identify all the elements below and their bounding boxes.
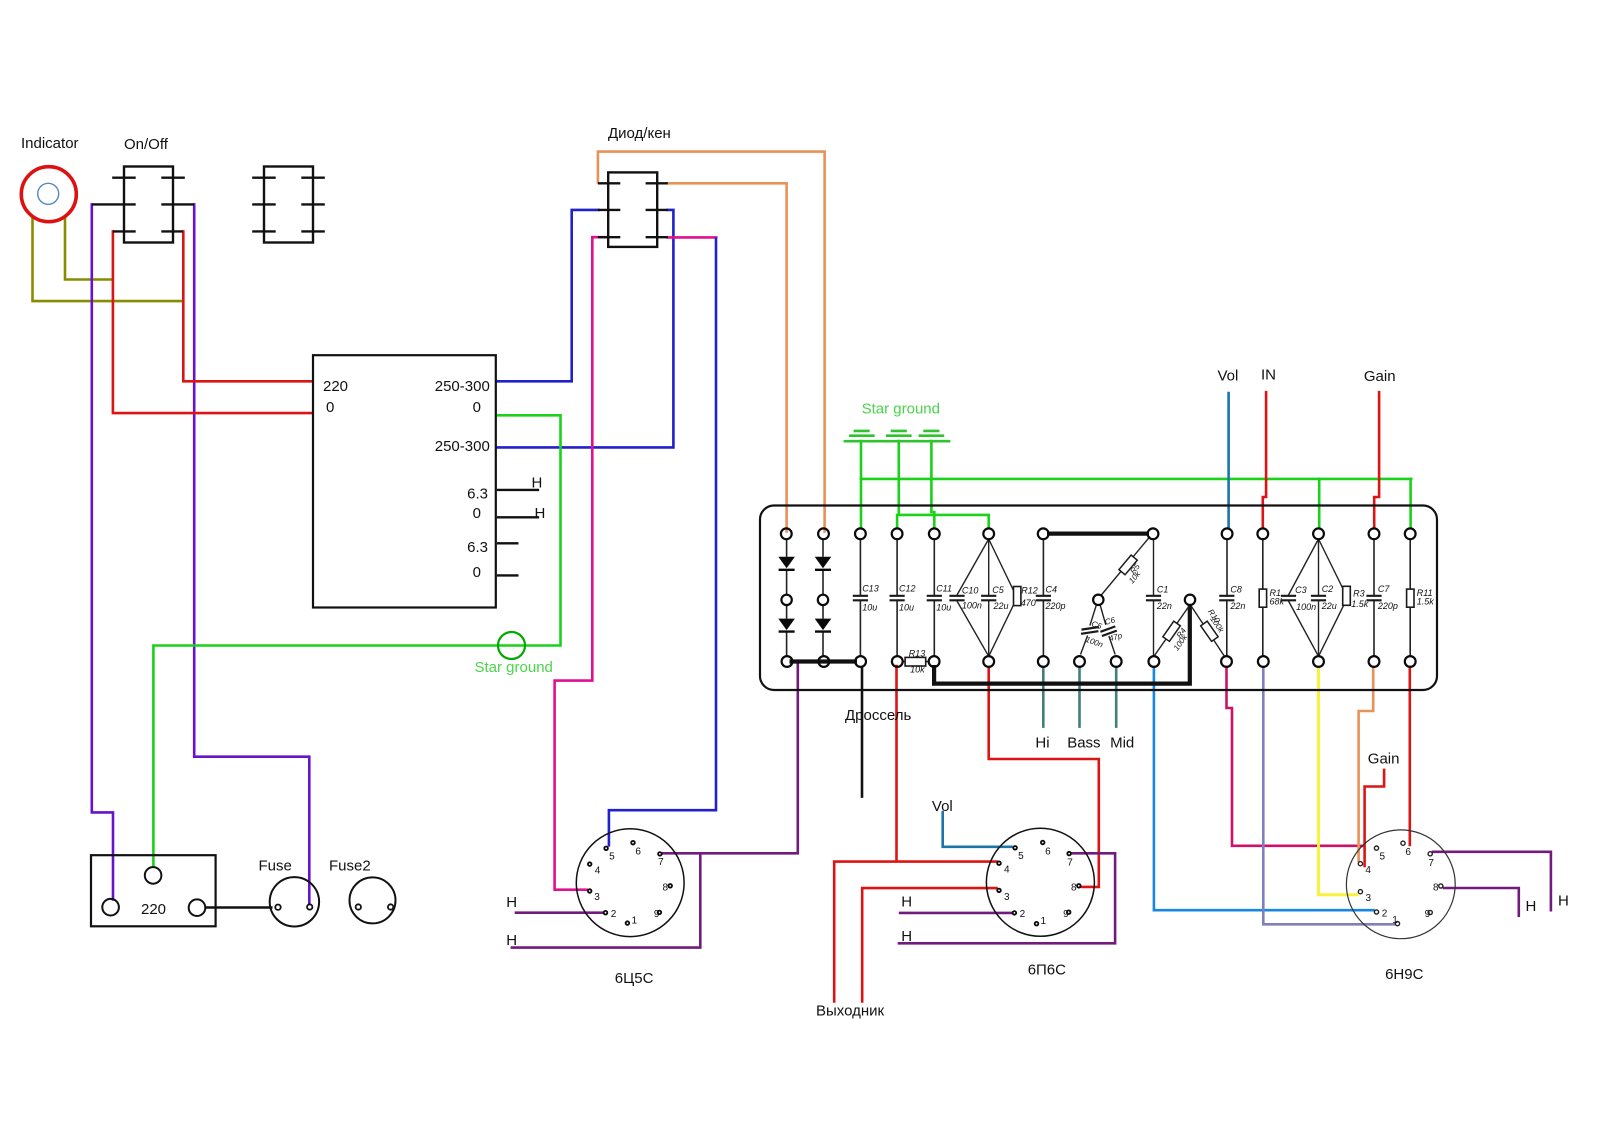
svg-text:100n: 100n <box>962 601 982 611</box>
svg-text:5: 5 <box>1018 851 1024 862</box>
svg-text:10u: 10u <box>936 603 951 613</box>
svg-text:H: H <box>535 505 546 522</box>
svg-text:6: 6 <box>635 847 641 858</box>
svg-text:9: 9 <box>1063 909 1069 920</box>
svg-text:0: 0 <box>473 399 481 416</box>
svg-text:220p: 220p <box>1045 601 1066 611</box>
svg-text:C8: C8 <box>1230 585 1242 595</box>
svg-text:6.3: 6.3 <box>467 486 488 503</box>
svg-text:220: 220 <box>323 378 348 395</box>
svg-text:Vol: Vol <box>1218 367 1239 384</box>
svg-text:R13: R13 <box>909 648 926 658</box>
svg-text:68k: 68k <box>1270 596 1285 606</box>
svg-text:22n: 22n <box>1229 601 1245 611</box>
svg-text:250-300: 250-300 <box>435 378 490 395</box>
svg-text:H: H <box>506 932 517 949</box>
svg-text:7: 7 <box>658 857 664 868</box>
svg-text:Indicator: Indicator <box>21 135 79 152</box>
svg-text:Выходник: Выходник <box>816 1003 885 1020</box>
svg-text:1: 1 <box>1041 916 1047 927</box>
svg-text:10u: 10u <box>899 603 914 613</box>
svg-text:5: 5 <box>1380 851 1386 862</box>
svg-text:220p: 220p <box>1377 601 1398 611</box>
svg-text:10u: 10u <box>862 603 877 613</box>
svg-text:Bass: Bass <box>1067 735 1100 752</box>
svg-text:R12: R12 <box>1021 586 1038 596</box>
svg-text:C1: C1 <box>1157 585 1169 595</box>
svg-text:On/Off: On/Off <box>124 136 169 153</box>
svg-text:Fuse2: Fuse2 <box>329 858 371 875</box>
svg-text:4: 4 <box>1365 865 1371 876</box>
svg-text:C11: C11 <box>936 584 952 594</box>
svg-text:8: 8 <box>1433 883 1439 894</box>
svg-text:C4: C4 <box>1046 585 1058 595</box>
svg-text:6Н9С: 6Н9С <box>1385 966 1424 983</box>
svg-text:1.5k: 1.5k <box>1351 599 1369 609</box>
svg-text:7: 7 <box>1428 858 1434 869</box>
svg-text:H: H <box>901 928 912 945</box>
svg-text:22n: 22n <box>1156 601 1172 611</box>
svg-text:C3: C3 <box>1295 585 1307 595</box>
svg-text:0: 0 <box>473 564 481 581</box>
svg-text:Диод/кен: Диод/кен <box>608 125 671 142</box>
svg-text:Star ground: Star ground <box>862 401 940 418</box>
svg-text:100n: 100n <box>1296 602 1316 612</box>
svg-text:C13: C13 <box>862 584 879 594</box>
svg-text:0: 0 <box>326 399 334 416</box>
svg-text:H: H <box>532 475 543 492</box>
svg-text:Mid: Mid <box>1110 735 1134 752</box>
svg-text:H: H <box>1526 898 1537 915</box>
svg-text:IN: IN <box>1261 367 1276 384</box>
svg-text:H: H <box>506 894 517 911</box>
svg-text:3: 3 <box>594 892 600 903</box>
svg-text:8: 8 <box>662 883 668 894</box>
svg-text:22u: 22u <box>993 601 1009 611</box>
svg-text:9: 9 <box>1425 909 1431 920</box>
svg-text:250-300: 250-300 <box>435 438 490 455</box>
svg-text:2: 2 <box>611 909 617 920</box>
svg-text:C7: C7 <box>1378 584 1390 594</box>
svg-text:Дроссель: Дроссель <box>845 707 911 724</box>
svg-text:1: 1 <box>631 916 637 927</box>
svg-text:C10: C10 <box>962 586 979 596</box>
svg-text:3: 3 <box>1004 892 1010 903</box>
svg-text:470: 470 <box>1021 598 1036 608</box>
svg-text:7: 7 <box>1067 858 1073 869</box>
svg-text:H: H <box>1558 893 1569 910</box>
svg-text:8: 8 <box>1071 883 1077 894</box>
svg-text:1: 1 <box>1392 915 1398 926</box>
svg-text:5: 5 <box>609 852 615 863</box>
svg-text:6П6С: 6П6С <box>1028 961 1066 978</box>
svg-text:C12: C12 <box>899 584 916 594</box>
svg-text:6Ц5С: 6Ц5С <box>615 970 654 987</box>
svg-text:C5: C5 <box>992 585 1004 595</box>
svg-text:10k: 10k <box>910 665 925 675</box>
svg-text:Fuse: Fuse <box>259 858 292 875</box>
svg-text:4: 4 <box>595 866 601 877</box>
svg-text:6: 6 <box>1045 846 1051 857</box>
svg-text:9: 9 <box>654 909 660 920</box>
svg-text:Gain: Gain <box>1364 368 1396 385</box>
svg-text:Gain: Gain <box>1368 751 1400 768</box>
svg-text:220: 220 <box>141 901 166 918</box>
svg-text:2: 2 <box>1020 909 1026 920</box>
svg-text:1.5k: 1.5k <box>1417 596 1435 606</box>
svg-text:Vol: Vol <box>932 798 953 815</box>
svg-text:C2: C2 <box>1322 584 1334 594</box>
svg-text:R3: R3 <box>1353 589 1365 599</box>
svg-text:Hi: Hi <box>1035 735 1049 752</box>
svg-text:Star ground: Star ground <box>475 659 553 676</box>
svg-text:6.3: 6.3 <box>467 539 488 556</box>
svg-text:0: 0 <box>473 505 481 522</box>
svg-text:22u: 22u <box>1321 601 1337 611</box>
svg-text:2: 2 <box>1382 908 1388 919</box>
svg-text:6: 6 <box>1405 847 1411 858</box>
svg-text:H: H <box>901 894 912 911</box>
svg-text:4: 4 <box>1004 865 1010 876</box>
svg-text:3: 3 <box>1366 893 1372 904</box>
